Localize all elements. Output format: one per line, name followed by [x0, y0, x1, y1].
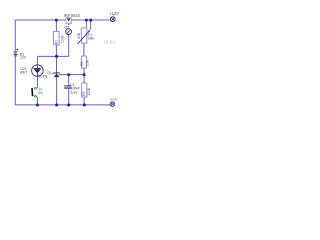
svg-text:Q1: Q1: [47, 71, 52, 75]
wire TL431 cathode: [56, 56, 58, 72]
svg-text:2Mn: 2Mn: [88, 36, 95, 40]
wire C1 bottom lead: [68, 89, 70, 105]
wire LED to switch: [36, 76, 38, 87]
wire C1 top lead: [68, 75, 70, 86]
battery B1: [13, 49, 18, 56]
junction node A: [55, 55, 58, 58]
junction ref-C1: [67, 73, 70, 76]
wire TL431 anode to bottom rail: [56, 77, 58, 105]
potentiometer P1 wiper arrow: [78, 31, 90, 44]
svg-text:+12V: +12V: [109, 11, 119, 16]
wire ref net horizontal: [59, 74, 85, 76]
wire pot wiper drop: [90, 20, 92, 30]
svg-text:10.5V: 10.5V: [103, 39, 116, 44]
junction rail-wiper: [89, 19, 92, 22]
switch S1: [32, 88, 37, 98]
svg-text:100K: 100K: [61, 35, 65, 44]
svg-text:R1: R1: [54, 40, 58, 44]
wire gate riser from Q2: [68, 35, 70, 57]
svg-text:6.3V: 6.3V: [71, 90, 79, 94]
MOSFET Q2 envelope circle: [66, 29, 72, 35]
svg-text:Q2: Q2: [64, 25, 69, 29]
+12V supply terminal: [110, 17, 115, 22]
svg-text:100K: 100K: [87, 87, 91, 96]
junction rail-pot: [85, 19, 88, 22]
junction bottom-switch: [36, 104, 39, 107]
svg-text:WHT: WHT: [20, 71, 28, 75]
resistor R1: [54, 31, 60, 45]
wire pot top lead: [85, 20, 87, 28]
wire R3 bottom lead: [83, 97, 85, 105]
resistor R2: [81, 56, 86, 68]
svg-text:R2: R2: [80, 61, 84, 65]
wire R3 top lead: [83, 75, 85, 83]
junction bottom-TL431: [55, 104, 58, 107]
junction bottom-R3: [83, 104, 86, 107]
wire R2 bottom lead: [83, 68, 85, 75]
svg-text:ON: ON: [38, 91, 43, 95]
svg-text:TL431: TL431: [38, 75, 48, 79]
GND terminal: [110, 102, 115, 107]
junction ref-R2R3: [83, 73, 86, 76]
wire LED branch down: [36, 56, 38, 65]
junction bottom-C1: [67, 104, 70, 107]
potentiometer P1 box: [81, 28, 87, 43]
resistor R3: [82, 83, 87, 97]
svg-text:10K: 10K: [86, 59, 90, 66]
junction rail-R1: [55, 19, 58, 22]
TL431 Q1: [52, 73, 59, 77]
svg-text:R3: R3: [82, 92, 86, 96]
capacitor C1: [64, 86, 71, 89]
svg-text:IRF9540: IRF9540: [64, 13, 81, 18]
svg-text:20K: 20K: [77, 32, 81, 39]
MOSFET Q2 arrow box: [66, 18, 71, 24]
svg-text:GND: GND: [110, 98, 118, 102]
wire R1 bottom lead to node A: [55, 45, 57, 57]
top rail wire (+12V net): [15, 19, 110, 21]
MOSFET Q2 stub: [68, 24, 70, 26]
wire pot bottom to R2 top: [83, 43, 85, 56]
svg-text:12V: 12V: [20, 55, 27, 59]
wire node A horizontal to gate riser: [37, 55, 68, 57]
wire switch to bottom rail: [36, 97, 38, 105]
left wire (battery branch): [15, 20, 110, 105]
LED LD1: [32, 65, 44, 77]
wire R1 top lead: [55, 20, 57, 31]
